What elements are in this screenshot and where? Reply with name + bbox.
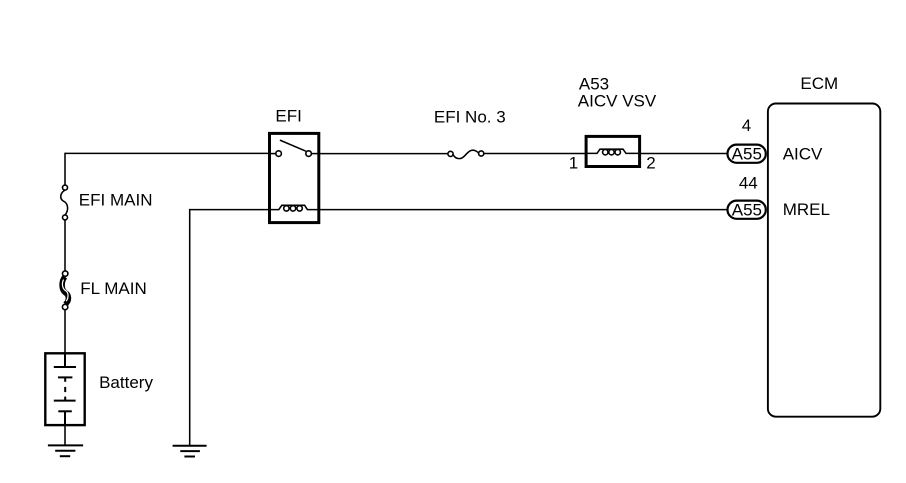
wire: B+ top horizontal from battery riser corner to EFI relay box	[65, 152, 268, 154]
connector A55 pin 4 (AICV)	[728, 145, 766, 164]
svg-text:EFI No. 3: EFI No. 3	[434, 107, 506, 126]
ground: relay coil ground	[173, 446, 207, 457]
fuse EFI MAIN	[61, 185, 68, 220]
svg-text:Battery: Battery	[99, 373, 153, 392]
ground: battery ground	[48, 445, 83, 456]
relay coil (inside EFI relay)	[268, 205, 320, 211]
wire: relay coil to chassis ground (left then down)	[190, 210, 268, 446]
wire: battery negative to ground	[64, 425, 66, 445]
svg-text:44: 44	[739, 173, 758, 192]
svg-text:MREL: MREL	[783, 200, 830, 219]
svg-text:EFI MAIN: EFI MAIN	[79, 190, 153, 209]
wire: FL MAIN to battery	[64, 310, 66, 353]
relay switch contact (inside EFI relay)	[268, 140, 320, 156]
battery	[45, 353, 84, 426]
svg-text:1: 1	[569, 154, 578, 173]
wire: between EFI MAIN and FL MAIN	[64, 220, 66, 271]
solenoid valve A53 AICV VSV	[586, 136, 640, 166]
wire: battery positive riser (corner down to EFI MAIN fuse)	[64, 153, 66, 185]
wire: VSV pin 2 to ECM connector A55 pin 4	[641, 153, 727, 155]
coil (inside AICV VSV)	[585, 149, 641, 155]
svg-text:EFI: EFI	[275, 107, 301, 126]
fusible link FL MAIN	[62, 271, 68, 310]
svg-text:A55: A55	[732, 201, 762, 220]
svg-text:AICV: AICV	[783, 144, 823, 163]
wire: relay switch output to EFI No.3 fuse	[320, 153, 448, 155]
ECM box	[768, 104, 880, 417]
relay EFI	[270, 133, 319, 222]
svg-text:ECM: ECM	[800, 74, 838, 93]
svg-text:AICV VSV: AICV VSV	[578, 91, 657, 110]
svg-text:4: 4	[742, 116, 751, 135]
connector A55 pin 44 (MREL)	[728, 201, 766, 220]
fuse EFI No. 3	[448, 150, 484, 158]
svg-text:A55: A55	[732, 145, 762, 164]
wire: relay coil to ECM connector A55 pin 44 (MREL)	[320, 209, 727, 211]
svg-text:2: 2	[646, 154, 655, 173]
svg-text:FL MAIN: FL MAIN	[80, 279, 146, 298]
wire: EFI No.3 fuse to AICV VSV	[484, 153, 586, 155]
